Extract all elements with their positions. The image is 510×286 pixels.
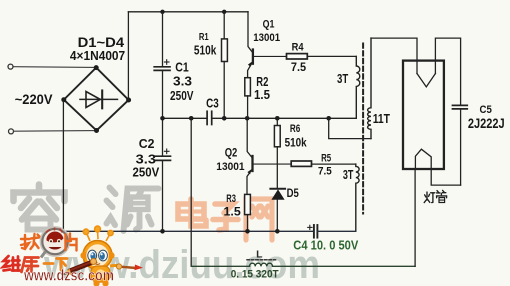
resistor R4: [287, 54, 357, 59]
svg-text:www.dzsc.com: www.dzsc.com: [23, 268, 114, 285]
svg-text:R3: R3: [226, 193, 236, 205]
capacitor C2: [155, 118, 171, 231]
transformer winding 11T: [329, 38, 371, 139]
logo text ku (red): [22, 258, 39, 273]
node mid rail junctions: [160, 116, 331, 121]
capacitor C1: [154, 12, 170, 119]
LOGO CLUSTER ON TOP: [3, 226, 143, 286]
transistor Q1: [248, 12, 287, 78]
watermark char DIAN (salmon): [178, 199, 206, 226]
svg-text:2J222J: 2J222J: [468, 116, 505, 131]
svg-text:1.5: 1.5: [224, 207, 242, 219]
wire 11T top to lamp: [371, 38, 417, 73]
svg-text:4×1N4007: 4×1N4007: [70, 49, 125, 63]
svg-text:250V: 250V: [170, 89, 194, 103]
svg-text:3.3: 3.3: [173, 74, 192, 89]
svg-text:0. 15 320T: 0. 15 320T: [231, 268, 279, 280]
label lamp (Chinese: deng guan): [424, 190, 446, 202]
node top rail C1: [160, 10, 164, 14]
wire lamp bottom left pin down: [414, 169, 416, 266]
svg-text:D1~D4: D1~D4: [78, 35, 125, 50]
wire bridge left vertex down: [62, 100, 64, 232]
watermark char ZI (salmon): [213, 204, 238, 230]
svg-text:13001: 13001: [253, 32, 280, 44]
wire negative rail right of C4: [317, 230, 355, 232]
logo magnifier badge: [40, 227, 69, 258]
svg-text:C1: C1: [175, 60, 189, 75]
capacitor C3: [207, 111, 212, 124]
wire negative rail left: [63, 230, 313, 232]
logo text wei (red): [3, 256, 20, 271]
svg-text:R5: R5: [321, 153, 331, 165]
watermark char WANG (salmon): [246, 199, 272, 240]
wire input bottom: [14, 130, 97, 133]
resistor R3: [245, 194, 251, 231]
transformer winding 3T bottom: [356, 164, 359, 231]
logo mascot pencil: [63, 259, 97, 275]
svg-text:R2: R2: [256, 75, 268, 89]
watermark char YUAN (gray): [107, 188, 159, 232]
resistor R5: [291, 161, 356, 166]
inductor L coil: [250, 263, 273, 266]
svg-text:D5: D5: [287, 188, 300, 200]
terminal input top: [8, 64, 13, 69]
bridge rectifier D1-D4 diamond: [64, 68, 129, 131]
svg-text:C4 10. 0 50V: C4 10. 0 50V: [293, 237, 358, 252]
capacitor C4: [308, 225, 318, 238]
inductor L core dashed: [247, 259, 276, 261]
svg-text:C2: C2: [139, 136, 155, 151]
svg-text:1.5: 1.5: [254, 88, 270, 102]
svg-text:~220V: ~220V: [15, 92, 53, 107]
bridge diode symbol: [80, 91, 118, 109]
svg-text:13001: 13001: [216, 161, 244, 173]
lamp top filament: [417, 74, 435, 87]
svg-text:3T: 3T: [337, 72, 348, 86]
svg-text:7.5: 7.5: [318, 165, 332, 177]
WATERMARKS UNDER CIRCUIT: [14, 185, 321, 286]
svg-text:C5: C5: [480, 104, 492, 116]
svg-text:R4: R4: [292, 42, 304, 54]
wire top rail: [128, 11, 248, 13]
transistor Q2: [247, 118, 291, 194]
wire bottom output rail: [191, 265, 249, 267]
capacitor C5: [453, 105, 468, 185]
wire bridge right vertex up: [127, 12, 129, 100]
logo mascot body: [91, 266, 120, 286]
logo mascot eyes: [88, 250, 108, 264]
wire mid rail right: [212, 117, 357, 119]
svg-text:3.3: 3.3: [136, 152, 156, 167]
svg-text:R1: R1: [199, 31, 209, 43]
lamp bottom filament: [415, 149, 431, 169]
svg-text:3T: 3T: [343, 167, 354, 182]
diode D5: [270, 189, 285, 232]
svg-text:510k: 510k: [194, 43, 217, 58]
wire lamp right pin to C5: [435, 38, 460, 105]
logo text zhao (find, orange outline): [21, 234, 40, 249]
resistor R6: [274, 118, 280, 189]
wire input top: [13, 66, 96, 69]
logo text yi-xia (orange): [44, 259, 67, 271]
transformer core dashed: [362, 44, 364, 214]
lamp tube body: [403, 61, 444, 169]
resistor R1: [222, 12, 228, 119]
transformer winding 3T top: [356, 56, 360, 118]
logo mascot head: [83, 241, 112, 270]
logo mascot antennas: [83, 226, 113, 241]
wire C5 bottom to lamp bottom right pin: [431, 169, 460, 185]
svg-text:R6: R6: [290, 123, 300, 135]
svg-text:L: L: [256, 249, 263, 261]
bridge vertex dots: [61, 65, 131, 133]
svg-text:C3: C3: [206, 96, 219, 111]
svg-text:250V: 250V: [133, 166, 160, 180]
wire midpoint down to output rail: [190, 118, 192, 266]
svg-text:Q2: Q2: [225, 147, 238, 160]
node top rail R1: [222, 10, 226, 14]
node negative rail junctions: [160, 229, 279, 234]
terminal input bottom: [9, 129, 14, 134]
watermark char RONG (gray): [14, 185, 65, 230]
resistor R2: [245, 78, 251, 119]
svg-text:7.5: 7.5: [291, 60, 306, 74]
svg-text:Q1: Q1: [263, 18, 275, 30]
logo mascot dart arm: [116, 264, 143, 270]
logo text pian (orange outline): [66, 234, 77, 251]
wire mid rail left: [163, 117, 208, 119]
svg-text:510k: 510k: [285, 137, 307, 150]
svg-text:11T: 11T: [373, 112, 391, 126]
